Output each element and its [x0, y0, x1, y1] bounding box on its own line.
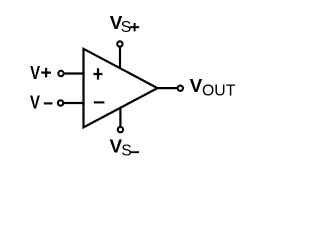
label VS+ : subscript plus sign	[130, 23, 139, 31]
wire V- input to triangle	[64, 102, 85, 104]
svg-text:V: V	[30, 62, 41, 83]
terminal V+ input	[58, 71, 63, 76]
wire negative supply to triangle bottom	[119, 108, 121, 127]
svg-text:V: V	[30, 92, 41, 113]
terminal V- input	[58, 100, 63, 105]
label V- : minus sign	[44, 102, 53, 104]
wire positive supply to triangle top	[119, 47, 121, 69]
terminal VS- supply	[118, 127, 123, 132]
label V+ : plus sign	[41, 68, 51, 78]
wire V+ input to triangle	[64, 72, 84, 74]
svg-text:OUT: OUT	[202, 83, 236, 100]
non-inverting input plus marking	[93, 68, 102, 79]
svg-text:V: V	[190, 76, 203, 97]
terminal VOUT output	[178, 86, 183, 91]
inverting input minus marking	[94, 101, 105, 103]
wire output from triangle apex	[157, 87, 178, 89]
terminal VS+ supply	[117, 41, 122, 46]
svg-text:S: S	[121, 19, 132, 36]
label VS- : subscript minus sign	[130, 151, 139, 153]
svg-text:S: S	[121, 143, 132, 160]
op-amp U1 triangle	[84, 49, 158, 128]
